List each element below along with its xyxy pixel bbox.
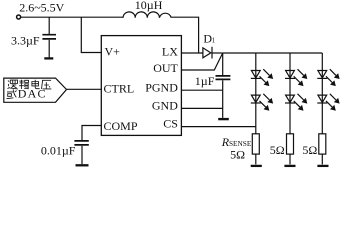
wire: OUT stub diagonal: [181, 54, 222, 70]
LED D5 (string2 bottom): [285, 94, 307, 111]
svg-text:2.6~5.5V: 2.6~5.5V: [19, 0, 64, 14]
ground (string3): [317, 165, 328, 167]
svg-text:1: 1: [212, 37, 216, 45]
wire: 1uF cap top lead: [222, 53, 224, 75]
wire: LX stub: [181, 52, 203, 54]
svg-text:3.3µF: 3.3µF: [11, 34, 40, 48]
LED string 2 wire: [289, 53, 291, 134]
resistor R3 5ohm (string3): [319, 134, 326, 154]
ground (1uF / PGND / GND): [218, 118, 229, 120]
char 辑: [19, 80, 29, 90]
wire: cap C1 top lead: [48, 17, 50, 34]
supply terminal: [17, 15, 21, 19]
wire: supply rail to inductor: [21, 16, 123, 18]
wire: V+ branch: [81, 17, 101, 52]
svg-text:GND: GND: [152, 98, 178, 112]
ground (C1): [44, 57, 53, 59]
op-amp U1 IC box: [101, 36, 181, 136]
ground (0.01uF): [76, 164, 89, 166]
diode D1: [203, 48, 211, 58]
wire: 1uF cap bottom lead: [222, 80, 224, 118]
wire below Rsense: [255, 154, 257, 164]
char 电: [32, 80, 40, 89]
capacitor 1uF plates: [216, 76, 231, 80]
wire: inductor to LX node: [171, 17, 198, 53]
diode D1 cathode bar: [211, 47, 213, 59]
svg-text:10µH: 10µH: [135, 0, 163, 12]
svg-text:CS: CS: [163, 117, 178, 131]
node CTRL tag: [4, 78, 67, 102]
LED D2 (string1 top): [251, 69, 273, 86]
char 逻: [8, 80, 18, 89]
svg-text:PGND: PGND: [145, 81, 178, 95]
LED string 3 wire: [321, 53, 323, 134]
svg-text:5Ω: 5Ω: [270, 143, 285, 157]
wire below R2: [289, 154, 291, 164]
svg-text:DAC: DAC: [18, 87, 47, 101]
svg-text:5Ω: 5Ω: [302, 143, 317, 157]
svg-text:1µF: 1µF: [195, 74, 215, 88]
wire: CS stub: [181, 126, 255, 128]
wire: cap C1 bottom lead: [48, 40, 50, 58]
LED D6 (string3 top): [317, 69, 339, 86]
wire: PGND stub: [181, 89, 222, 91]
inductor L1 10uH: [123, 12, 171, 18]
wire: CTRL stub: [67, 88, 102, 90]
label CJK 逻辑电压 / 或DAC: [7, 80, 52, 99]
char 或: [7, 89, 17, 98]
svg-text:0.01µF: 0.01µF: [41, 144, 76, 158]
wire below R3: [321, 154, 323, 164]
wire: output rail: [223, 52, 323, 54]
char 压: [42, 80, 52, 89]
svg-text:CTRL: CTRL: [104, 81, 135, 95]
svg-text:OUT: OUT: [153, 61, 178, 75]
wire: GND stub: [181, 107, 222, 109]
svg-text:5Ω: 5Ω: [230, 147, 245, 161]
LED string 1 wire: [255, 53, 257, 134]
capacitor 0.01uF plates: [74, 141, 88, 145]
ground (string2): [284, 165, 295, 167]
wire: diode to output node: [212, 52, 223, 54]
svg-text:V+: V+: [105, 44, 121, 58]
LED D7 (string3 bottom): [317, 94, 339, 111]
wire: COMP stub: [82, 126, 101, 141]
svg-text:LX: LX: [162, 45, 178, 59]
wire: 0.01uF bottom lead: [81, 146, 83, 164]
resistor Rsense (string1): [252, 134, 259, 154]
ground (string1): [251, 165, 262, 167]
svg-text:COMP: COMP: [104, 119, 138, 133]
LED D3 (string1 bottom): [251, 94, 273, 111]
resistor R2 5ohm (string2): [287, 134, 294, 154]
capacitor C1 3.3uF plates: [42, 35, 56, 39]
LED D4 (string2 top): [285, 69, 307, 86]
